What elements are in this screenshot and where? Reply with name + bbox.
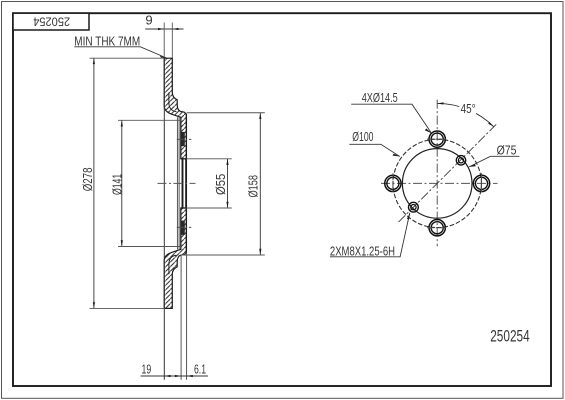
svg-text:9: 9 — [145, 14, 152, 28]
bolt hole N — [427, 131, 447, 147]
bolt hole centerline bottom — [177, 226, 192, 228]
svg-text:45°: 45° — [461, 102, 476, 116]
section bottom half profile (hatched) — [164, 208, 186, 308]
45 degree arc dim — [437, 103, 494, 126]
svg-text:6.1: 6.1 — [194, 362, 206, 376]
svg-text:Ø75: Ø75 — [497, 143, 517, 157]
bolt hole S — [427, 220, 447, 236]
bore thick line — [182, 159, 184, 208]
horizontal centerline — [381, 182, 498, 184]
svg-text:19: 19 — [142, 362, 152, 376]
bolt circle D100 dashed — [393, 139, 481, 227]
bolt hole W — [385, 173, 401, 193]
svg-text:4XØ14.5: 4XØ14.5 — [362, 91, 398, 105]
M8 hole lower left — [409, 202, 419, 212]
section centerline — [158, 182, 196, 184]
bolt hole centerline top — [177, 138, 192, 140]
svg-text:Ø278: Ø278 — [80, 168, 95, 192]
title box top-left — [13, 13, 89, 30]
neck inner visible edge top — [169, 93, 177, 112]
bore thin line — [185, 159, 187, 208]
bore edges horizontal — [181, 158, 187, 160]
bolt hole dark blob bottom — [181, 221, 185, 235]
M8 hole upper right — [456, 156, 465, 165]
svg-text:MIN THK 7MM: MIN THK 7MM — [74, 34, 140, 48]
svg-text:Ø55: Ø55 — [213, 174, 228, 195]
section top half profile (hatched) — [164, 58, 186, 159]
mid thin pair lines — [176, 117, 178, 249]
vertical centerline — [436, 100, 438, 247]
solid circle D75 — [402, 149, 472, 219]
bolt hole E — [473, 173, 489, 193]
plate right face — [185, 114, 187, 252]
svg-text:Ø158: Ø158 — [246, 175, 261, 198]
svg-text:2XM8X1.25-6H: 2XM8X1.25-6H — [330, 244, 395, 258]
svg-text:250254: 250254 — [33, 14, 70, 28]
svg-text:250254: 250254 — [490, 327, 530, 346]
plate left face + ext — [180, 117, 182, 159]
long left face line — [163, 58, 165, 380]
6.1 right ext line — [186, 253, 188, 380]
svg-text:Ø100: Ø100 — [352, 130, 373, 144]
diagonal 45 centerline — [399, 124, 497, 222]
neck inner visible edge bottom — [169, 255, 177, 274]
bolt hole dark blob top — [181, 132, 185, 146]
